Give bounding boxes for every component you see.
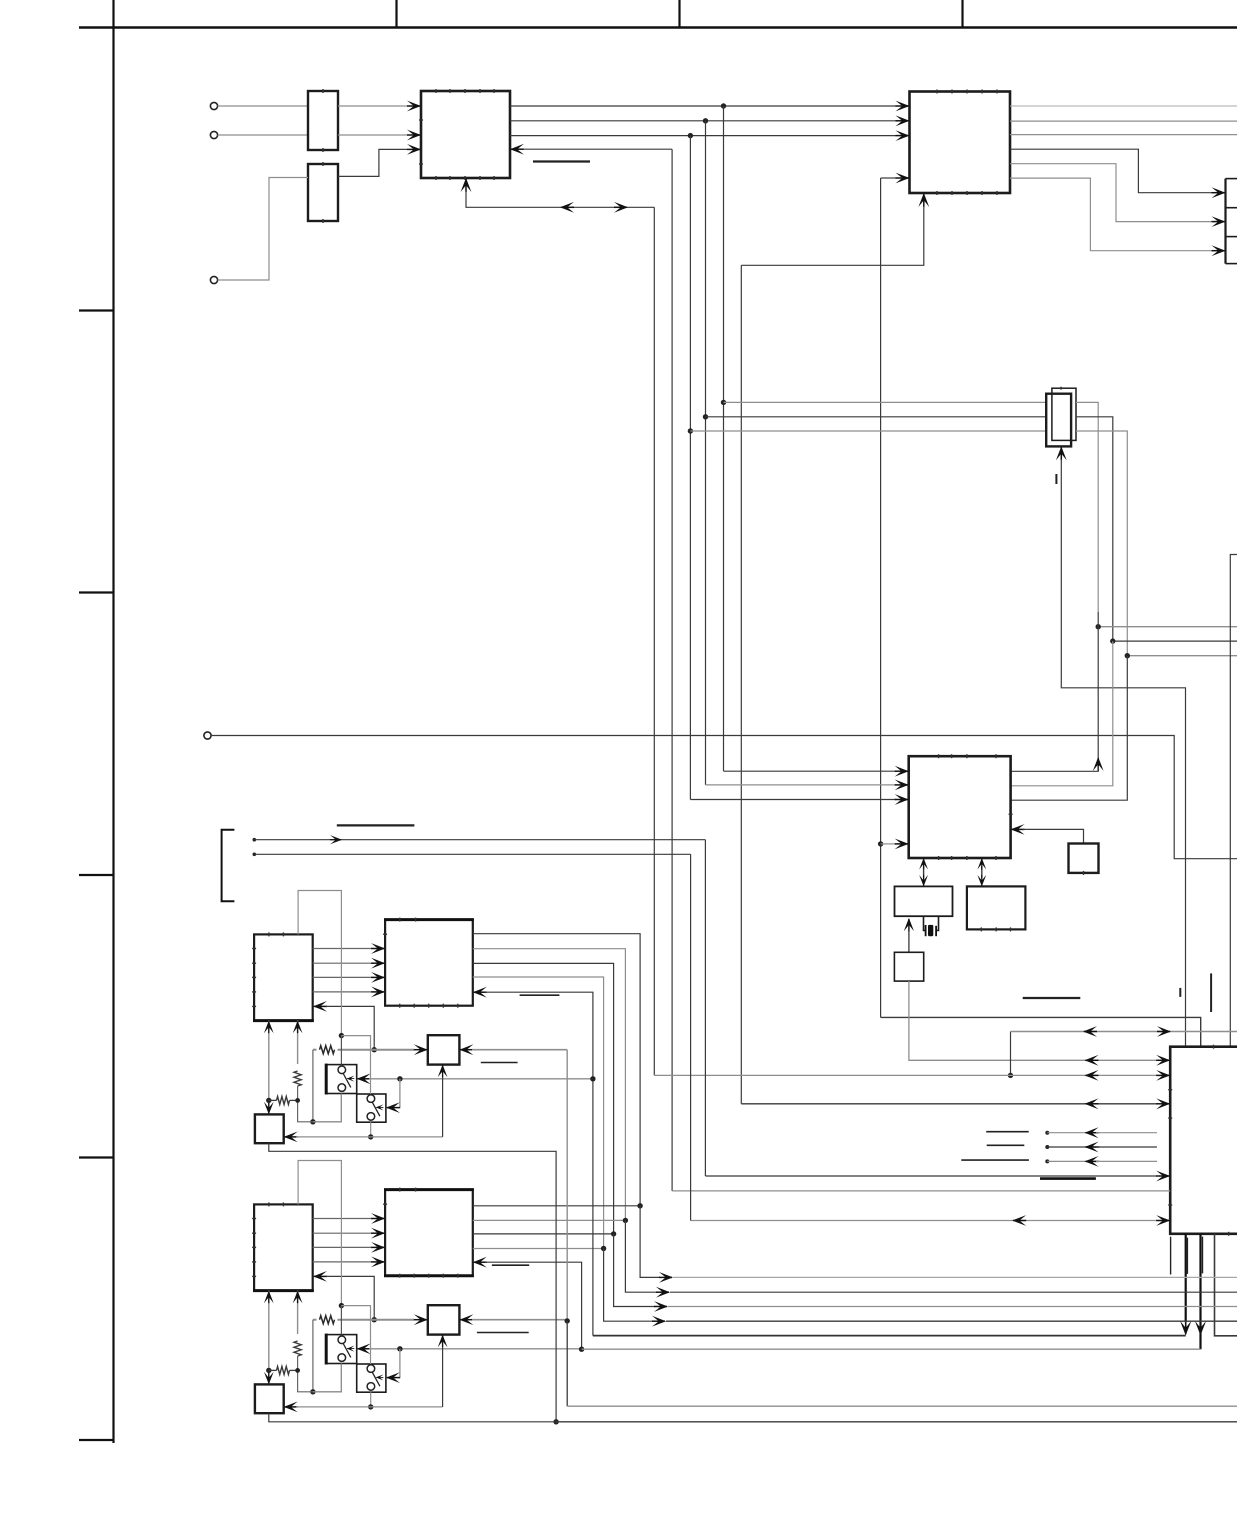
block A1 [254, 934, 313, 1020]
arrow into C2 right [459, 1314, 473, 1325]
wire C2 right feed [472, 1319, 567, 1321]
terminal T1 [210, 102, 217, 109]
label stub above U6 a [1179, 988, 1181, 997]
arrow into C2 left [414, 1314, 428, 1325]
wire net3 to out row [614, 1234, 655, 1307]
wire U6 pin8 row from bus V2 [672, 1190, 1170, 1192]
U6 bottom stub a [1170, 1237, 1172, 1275]
arrow left on U6 pin4 stub [1085, 1127, 1099, 1138]
crystal Y1 right lead [937, 916, 939, 930]
node row2 bus tap [703, 118, 708, 123]
stub U6 pin5 [1045, 1145, 1100, 1149]
switch S1b pointer [376, 1104, 384, 1110]
border left tick row F [79, 1439, 114, 1441]
wire C net vertical [566, 1050, 568, 1321]
terminal T4 [210, 276, 217, 283]
wire B2 out3 [473, 1233, 614, 1235]
label line B2 pin [492, 1264, 529, 1266]
wire T4 to FL2 [218, 178, 308, 281]
arrow into U1 pin2 [407, 130, 421, 141]
wire D2 row [296, 1406, 443, 1408]
IC U2 [910, 92, 1011, 194]
arrow out row1 [659, 1272, 673, 1283]
switch S2b contact bottom [367, 1383, 375, 1391]
wire T1 to filter FL1 [218, 105, 308, 107]
arrow into CN2 pin2 [1212, 216, 1226, 227]
terminal T2 [210, 131, 217, 138]
arrow out row4 [652, 1316, 666, 1327]
wire U5 out1 [1011, 766, 1099, 771]
wire U7 out to U6 pin1 [909, 981, 1157, 1060]
label line U1 mode [533, 160, 590, 162]
B2 top pin ticks [400, 1188, 416, 1192]
wire A1 to B1 row2 [313, 962, 372, 964]
U2 top pin ticks [937, 90, 997, 94]
wire U1 bottom to bus V1 [466, 191, 654, 208]
arrow into B1 row1 [371, 943, 385, 954]
arrow up into C2 bottom [438, 1335, 448, 1348]
node V7 tap to U5 pin4 [878, 841, 883, 846]
wire FL1 out B to U1 [338, 134, 407, 136]
border left tick row C [79, 591, 114, 593]
connector CN2 row lines [1226, 179, 1237, 264]
wire return row6 [582, 1348, 1201, 1350]
wire right edge net to U6 top [1230, 555, 1237, 1047]
wire A2 vtap2 lower [298, 1356, 342, 1392]
node common split 1 [339, 1033, 344, 1038]
block D2 [255, 1384, 284, 1413]
wire V5 to CN1 row1 [724, 401, 1047, 403]
wire A2 to B2 row3 [313, 1246, 372, 1248]
arrow into U1 right pin [510, 144, 524, 155]
label line B1 pin [520, 994, 560, 996]
wire common loop 1 [298, 891, 341, 1036]
block D1 [255, 1114, 284, 1143]
B1 top pin ticks [400, 918, 416, 922]
node on CN1 row2 drop [1110, 638, 1115, 643]
wire CN1 row2 out [1076, 417, 1113, 641]
wire S1a select [369, 1078, 593, 1080]
switch S2b lever [372, 1372, 380, 1386]
switch S1a left edge emphasis [325, 1064, 328, 1095]
double arrow U5 to U8 [977, 858, 986, 886]
wire A1 to B1 row4 [313, 991, 372, 993]
arrow left on U1 bottom bus [560, 202, 574, 213]
node shared net2 [623, 1218, 628, 1223]
wire S1a bottom [313, 1094, 342, 1122]
arrow into U2 pin3 [896, 130, 910, 141]
border left vertical rule [112, 0, 114, 1443]
arrow left on U6 pin6 stub [1085, 1156, 1099, 1167]
switch S1b contact top [367, 1095, 375, 1103]
wire C net lower vertical [566, 1321, 568, 1406]
wire A1 to B1 row3 [313, 976, 372, 978]
node shared net4 [601, 1246, 606, 1251]
arrow up into C1 bottom [438, 1065, 448, 1078]
filter FL2 [308, 164, 338, 221]
wire into U2 left pin4 [881, 177, 896, 179]
A1 top pin ticks [269, 932, 284, 936]
node S2b tap [397, 1346, 402, 1351]
wire common to S1b [341, 1036, 370, 1094]
arrow into B1 row3 [371, 972, 385, 983]
crystal Y1 right plate [935, 926, 937, 936]
wire U6 row2 riser tap [1010, 1032, 1012, 1076]
label line U6 pin4 [986, 1131, 1028, 1133]
arrow into B2 row3 [371, 1242, 385, 1253]
bus V2 vertical [671, 149, 673, 1191]
wire B2 out1 [473, 1205, 640, 1207]
switch S1b contact bottom [367, 1113, 375, 1121]
wire net2 to out row [625, 1220, 657, 1292]
wire S1b select drop [398, 1079, 400, 1108]
wire bracket bus2 [253, 853, 691, 857]
filter FL1 top pin tick [322, 89, 324, 93]
wire A1 vtap2 upper [293, 1021, 303, 1064]
arrow out row2 [656, 1287, 670, 1298]
switch S1a pointer [347, 1076, 355, 1082]
arrow into U1 pin1 [407, 101, 421, 112]
wire C net row to right edge [567, 1405, 1237, 1407]
wire V7 tap to U5 pin4 [881, 843, 896, 845]
arrow right into U6 pin3 [1156, 1098, 1170, 1109]
arrow into A2 right pin [313, 1271, 327, 1282]
arrow into S2a [357, 1343, 371, 1354]
node common split 2 [339, 1303, 344, 1308]
wire U6 bottom pinC to right edge [1215, 1234, 1237, 1336]
filter FL2 top pin tick [322, 162, 324, 166]
wire FL1 out A to U1 [338, 105, 407, 107]
wire tune bus 2 [313, 1316, 414, 1324]
wire S2b select drop [398, 1349, 400, 1378]
wire B1 out3 [473, 963, 614, 1234]
wire U6 pin6 stub tail [1096, 1160, 1157, 1162]
arrow into B1 row4 [371, 987, 385, 998]
wire out row4 to right edge [666, 1320, 1237, 1322]
arrow right into U6 pin7 [1156, 1171, 1170, 1182]
arrow into D1 [284, 1132, 298, 1143]
arrow left on U6 pin2 row [1085, 1070, 1099, 1081]
border top horizontal rule [79, 26, 1237, 28]
U6 bottom pin tick [1228, 1232, 1230, 1236]
node B2 return tap [579, 1347, 584, 1352]
wire A2 to B2 row2 [313, 1232, 372, 1234]
A1 left pin ticks [252, 949, 256, 1007]
arrow into S1b [386, 1102, 400, 1113]
node on CN1 row1 drop [1096, 624, 1101, 629]
B1 top edge emphasis [384, 918, 474, 921]
block U8 [967, 886, 1026, 929]
wire CN1 row2 drop to U5 out2 [1011, 641, 1113, 786]
wire S2a select [369, 1348, 582, 1350]
border left tick row D [79, 874, 114, 876]
bus V3 vertical (row3 net) [689, 136, 691, 800]
wire common loop 2 [298, 1161, 341, 1306]
wire CN1 row1 drop to U5 out1 [1097, 612, 1099, 766]
bus V5 vertical (row1 net) [723, 106, 725, 771]
node R1h right [295, 1098, 300, 1103]
filter FL2 bottom pin tick [322, 219, 324, 223]
block C1 [428, 1035, 460, 1064]
switch S2a box [326, 1335, 357, 1364]
arrow X-block to oscillator U7 [904, 918, 914, 952]
wire U6 bottom pinB to return row6 [1195, 1234, 1206, 1349]
node D1 row join [368, 1134, 373, 1139]
node tune drop join 1 [310, 1119, 315, 1124]
B2 top edge emphasis [384, 1188, 474, 1191]
U8 bottom pin ticks [981, 927, 1010, 931]
switch S2a left edge emphasis [325, 1334, 328, 1365]
U5 top pin ticks [939, 754, 996, 758]
arrow into S2b [386, 1372, 400, 1383]
arrow left on auxiliary row [1083, 1026, 1097, 1037]
wire out row1 to right edge [673, 1276, 1237, 1278]
arrow into B1 row2 [371, 958, 385, 969]
arrow right on U1 bottom bus [614, 202, 628, 213]
IC U6 [1170, 1047, 1237, 1234]
wire out row2 to right edge [670, 1291, 1237, 1293]
switch S1a box [326, 1065, 357, 1094]
switch S1a contact bottom [338, 1084, 346, 1092]
wire V3 into U5 pin3 [690, 799, 896, 801]
arrow up into U1 bottom [461, 178, 472, 192]
connector CN1 front shell [1046, 394, 1071, 447]
wire return row5 [593, 1335, 1186, 1337]
wire S2a bottom [313, 1364, 342, 1392]
stub U6 pin4 [1045, 1131, 1100, 1135]
switch S1a contact top [338, 1066, 346, 1074]
B2 bottom pin ticks [400, 1274, 458, 1278]
net row from V5 net to right edge [1098, 626, 1237, 628]
wire U5 right pin from G1 [1023, 829, 1084, 843]
wire V3 to CN1 row3 [690, 430, 1046, 432]
arrow into U2 pin2 [896, 115, 910, 126]
wire bracket bus1 drop [704, 840, 706, 1176]
wire bracket bus1 [253, 838, 706, 842]
wire D net row to right edge [556, 1421, 1237, 1423]
switch S2a contact bottom [338, 1354, 346, 1362]
node D2 row join [368, 1404, 373, 1409]
resistor R1h [269, 1096, 298, 1104]
arrow into U2 pin1 [896, 101, 910, 112]
wire U2 out row1 to right edge [1010, 105, 1237, 107]
arrow on bracket bus1 [330, 835, 342, 844]
arrow into B1 right pin [473, 987, 487, 998]
wire U6 pin3 row from bus V6 [741, 1103, 1157, 1105]
wire U2 bottom from bus V6 [741, 206, 924, 266]
node tap on U6 row2 [1008, 1073, 1013, 1078]
wire D1 bottom drop [269, 1143, 556, 1422]
arrow into B2 right pin [473, 1257, 487, 1268]
block B1 [385, 920, 473, 1006]
wire U2 out row4 to CN2 [1010, 149, 1212, 193]
border top section divider 1 [395, 0, 397, 28]
resistor R1v [294, 1071, 301, 1086]
switch S1b lever [372, 1102, 380, 1116]
arrow into B2 row2 [371, 1228, 385, 1239]
wire A2 vtap1 [264, 1291, 274, 1385]
label line C2 pin [477, 1332, 529, 1334]
arrow into U5 pin2 [895, 780, 909, 791]
wire D1 row [296, 1136, 443, 1138]
node R1h left [266, 1098, 271, 1103]
arrow into U5 pin3 [895, 794, 909, 805]
resistor R2h [269, 1366, 298, 1374]
crystal Y1 left plate [925, 925, 927, 936]
border top section divider 2 [678, 0, 680, 28]
wire B1 out4 [473, 977, 604, 1249]
wire U6 pin2 row from bus V1 [654, 1074, 1157, 1076]
arrow into CN2 pin3 [1212, 245, 1226, 256]
U6 top pin tick [1213, 1045, 1215, 1049]
arrow out row3 [654, 1301, 668, 1312]
bus V6 vertical [740, 265, 742, 1104]
wire bracket bus2 drop [690, 854, 692, 1220]
node V3 tap to CN1 [688, 428, 693, 433]
B2 left pin tick [383, 1203, 387, 1205]
wire B1 out1 [473, 934, 640, 1206]
wire V7 to U6 top pin [881, 1017, 1201, 1046]
wire A1 right pin feed [326, 1006, 374, 1049]
arrow left on U6 pin9 row [1012, 1215, 1026, 1226]
arrow left on U6 pin5 stub [1085, 1142, 1099, 1153]
U1 left pin ticks [419, 120, 423, 164]
bus V1 vertical [653, 207, 655, 1075]
wire U2 out row6 to CN2 [1010, 178, 1212, 251]
wire B1 out2 [473, 949, 626, 1221]
arrow into U2 pin4 [896, 173, 910, 184]
arrow into B2 row1 [371, 1213, 385, 1224]
border left tick row B [79, 309, 114, 311]
node B1 return tap [590, 1076, 595, 1081]
wire CN1 row3 drop to U5 out3 [1011, 656, 1128, 801]
wire CN1 row1 out [1076, 402, 1098, 612]
wire T2 to filter FL1 [218, 134, 308, 136]
U6 left pin ticks [1168, 1090, 1172, 1205]
wire net4 to out row [604, 1249, 653, 1322]
wire A2 to B2 row4 [313, 1261, 372, 1263]
label stub under CN1 [1055, 474, 1057, 484]
crystal Y1 left lead [924, 916, 926, 930]
IC U5 [909, 756, 1011, 858]
block G1 [1069, 844, 1099, 873]
wire B2 return riser [485, 1262, 582, 1349]
label line bracket [337, 824, 415, 826]
connector CN1 back shell [1052, 388, 1076, 440]
arrow into C1 right [459, 1044, 473, 1055]
label stub above U6 b [1210, 973, 1212, 1012]
wire V4 to CN1 row2 [706, 416, 1047, 418]
node shared net3 [611, 1231, 616, 1236]
node R2h left [266, 1368, 271, 1373]
wire FL2 to U1 pin [338, 149, 407, 176]
bracket left [222, 830, 235, 902]
switch S2a lever [343, 1344, 351, 1358]
arrow up on U5 out1 riser [1093, 757, 1104, 771]
U5 right pin tick [1009, 813, 1013, 815]
wire U1 out row1 [510, 105, 896, 107]
bus V7 vertical [880, 178, 882, 1017]
switch S2b box [357, 1364, 386, 1392]
arrow into U1 pin3 [407, 144, 421, 155]
wire U1 out row2 [510, 120, 896, 122]
wire U6 pin4 stub tail [1096, 1132, 1157, 1134]
A2 top pin ticks [269, 1202, 284, 1206]
A2 left pin ticks [252, 1219, 256, 1277]
arrow into B2 row4 [371, 1257, 385, 1268]
wire C1 right feed [472, 1049, 567, 1051]
arrow into U5 pin1 [895, 766, 909, 777]
connector CN2 left edge [1224, 179, 1226, 264]
filter FL1 [308, 91, 338, 150]
arrow into U5 right pin [1011, 824, 1025, 835]
wire tune bus drop 1 [312, 1050, 314, 1122]
border top section divider 3 [961, 0, 963, 28]
U5 bottom pin ticks [939, 856, 996, 860]
wire S2b bottom [370, 1392, 372, 1407]
block C2 [428, 1305, 460, 1334]
node on CN1 row3 drop [1125, 653, 1130, 658]
wire T3 long bus to right edge [211, 736, 1237, 859]
wire V5 into U5 pin1 [724, 770, 897, 772]
wire out row3 to right edge [668, 1306, 1237, 1308]
switch S2a pointer [347, 1346, 355, 1352]
wire U2 out row2 to right edge [1010, 120, 1237, 122]
node S1b tap [397, 1076, 402, 1081]
U1 top pin ticks [436, 89, 494, 93]
node D net join [553, 1419, 558, 1424]
wire CN1 bottom to U6 top pin [1061, 459, 1185, 1047]
node A2 vtap1 junction [266, 1368, 271, 1373]
border left tick row E [79, 1156, 114, 1158]
filter FL1 bottom pin tick [322, 148, 324, 152]
arrow left on U6 pin3 row [1085, 1098, 1099, 1109]
IC U1 [421, 91, 510, 178]
net row from V4 net to right edge [1113, 640, 1237, 642]
wire auxiliary row to right edge [1011, 1031, 1237, 1033]
node row1 bus tap [721, 103, 726, 108]
wire U6 pin7 row from bracket bus [705, 1175, 1157, 1177]
wire V4 into U5 pin2 [706, 784, 897, 786]
B1 bottom pin ticks [400, 1004, 458, 1008]
label line C1 pin [481, 1062, 518, 1064]
crystal Y1 body [928, 925, 933, 936]
stub U6 pin6 [1045, 1159, 1100, 1163]
label line U6 pin7 [1040, 1177, 1096, 1180]
wire U6 bottom pinA to return row5 [1180, 1234, 1191, 1336]
switch S2a contact top [338, 1336, 346, 1344]
switch S2b pointer [376, 1374, 384, 1380]
arrow into C1 left [414, 1044, 428, 1055]
switch S1a lever [343, 1074, 351, 1088]
wire B1 return riser [485, 992, 593, 1335]
wire A2 vtap2 upper [293, 1291, 303, 1334]
net row from V3 net to right edge [1127, 655, 1237, 657]
wire U6 pin9 row from bracket bus2 [691, 1220, 1157, 1222]
wire A1 vtap2 lower [298, 1086, 342, 1122]
block B2 [385, 1190, 473, 1276]
wire U6 pin5 stub tail [1096, 1146, 1157, 1148]
node V4 tap to CN1 [703, 414, 708, 419]
arrow right into U6 pin1 [1156, 1055, 1170, 1066]
arrow right on auxiliary row [1157, 1026, 1171, 1037]
switch S1b box [357, 1094, 386, 1122]
wire tune bus 1 [313, 1046, 414, 1054]
wire U1 right pin from bus V2 [523, 148, 672, 150]
wire U1 out row3 [510, 135, 896, 137]
node C net join [565, 1318, 570, 1323]
wire D2 bottom drop [269, 1413, 556, 1422]
